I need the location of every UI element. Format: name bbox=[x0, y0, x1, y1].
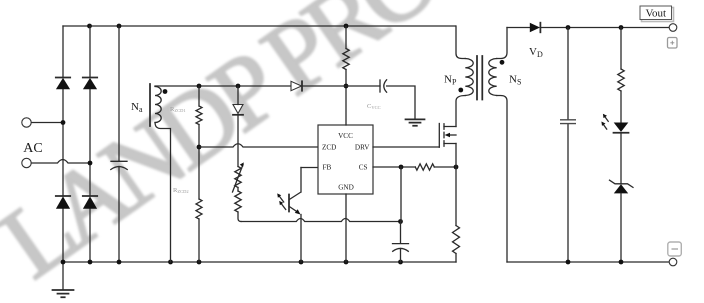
node y86 x346 bbox=[344, 84, 349, 89]
watermark bbox=[0, 0, 456, 300]
wire FB bbox=[301, 167, 318, 169]
Na phase dot bbox=[163, 89, 168, 94]
node rail x301 bbox=[299, 260, 304, 265]
svg-text:CVCC: CVCC bbox=[367, 103, 381, 110]
resistor Rzcd1 column bbox=[198, 86, 200, 106]
wire ZCD with hop bbox=[199, 144, 318, 147]
terminal Vout- bbox=[669, 258, 677, 266]
node dot top rail x346 bbox=[344, 24, 349, 29]
diode VD bbox=[530, 23, 541, 33]
node AC2 bbox=[88, 161, 93, 166]
aux winding Na core bbox=[149, 84, 151, 126]
node out x621 bbox=[619, 25, 624, 30]
wire bridge column 2 bbox=[89, 26, 91, 262]
diode (small, col x238) bbox=[233, 105, 243, 115]
node y86 x238 bbox=[236, 84, 241, 89]
node rail x170 bbox=[168, 260, 173, 265]
wire CS filter column bbox=[400, 167, 403, 243]
transformer Ns winding bbox=[489, 59, 497, 96]
bottom rail wire (primary) bbox=[63, 261, 456, 263]
node rail x119 bbox=[117, 260, 122, 265]
wire Cvcc to ground bbox=[387, 86, 415, 119]
wire to CS bus bbox=[238, 212, 241, 222]
capacitor C1 (bus filter) bbox=[111, 161, 127, 169]
resistor R LED bbox=[620, 28, 622, 70]
resistor below NTC bbox=[237, 188, 239, 192]
resistor Rcs (horizontal) bbox=[415, 164, 434, 170]
diode D2 bbox=[83, 78, 97, 90]
transistor Q1 MOSFET bbox=[439, 124, 456, 148]
ground (earth) bbox=[53, 262, 74, 297]
op IC U1 box bbox=[318, 125, 373, 194]
wire Ns top bbox=[497, 28, 507, 59]
variable resistor (NTC) bbox=[233, 162, 244, 192]
node rail x400 bbox=[398, 260, 403, 265]
resistor Rvcc (startup) bbox=[345, 26, 347, 49]
svg-text:NS: NS bbox=[509, 74, 521, 87]
wire Np bottom to drain bbox=[456, 96, 465, 127]
terminal AC1 bbox=[22, 118, 31, 127]
svg-text:LANDP PRO: LANDP PRO bbox=[0, 0, 456, 300]
capacitor Cout bbox=[560, 120, 576, 124]
svg-text:VCC: VCC bbox=[338, 132, 353, 140]
node rail x90 bbox=[88, 260, 93, 265]
diode Dvcc on y86 bbox=[291, 81, 302, 90]
label Vout box bbox=[640, 6, 674, 22]
wire GND pin bbox=[345, 194, 347, 262]
wire bridge column 1 bbox=[62, 26, 64, 262]
wire drain to Np bbox=[456, 26, 465, 59]
Np phase dot bbox=[458, 88, 463, 93]
node CS bus end bbox=[398, 219, 403, 224]
zener DZ bbox=[610, 180, 634, 193]
capacitor Cout column bbox=[567, 28, 569, 263]
node sec rail x621 bbox=[619, 260, 624, 265]
transformer core bbox=[477, 56, 482, 100]
svg-text:VD: VD bbox=[529, 46, 543, 59]
node rail x63 bbox=[61, 260, 66, 265]
wire Rcs to source bbox=[434, 166, 456, 168]
capacitor Cvcc bbox=[380, 80, 387, 92]
wire resistor to LED bbox=[620, 91, 622, 123]
wire CS pin bbox=[373, 166, 415, 168]
node CS x401 bbox=[399, 165, 404, 170]
node rail x346 bbox=[344, 260, 349, 265]
top rail wire bbox=[63, 25, 455, 27]
wire zener to rail bbox=[620, 193, 622, 262]
diode D1 bbox=[56, 78, 70, 90]
terminal Vout+ bbox=[669, 24, 677, 32]
terminal AC2 bbox=[22, 158, 31, 167]
wire y86 to Cvcc bbox=[302, 85, 380, 87]
svg-text:ZCD: ZCD bbox=[322, 144, 336, 152]
wire DRV bbox=[373, 146, 439, 148]
wire source to sense resistor bbox=[455, 144, 457, 226]
wire Ns bottom to rail bbox=[497, 96, 507, 263]
svg-text:GND: GND bbox=[338, 184, 354, 192]
wire Na bottom to ground bbox=[155, 123, 171, 263]
node ZCD tap bbox=[197, 145, 202, 150]
wire LED to zener bbox=[620, 133, 622, 184]
wire VCC pin column bbox=[345, 70, 347, 126]
node dot top rail x89 bbox=[87, 24, 92, 29]
optocoupler phototransistor bbox=[289, 168, 301, 263]
bottom rail wire (secondary) bbox=[507, 261, 669, 263]
opto light arrows bbox=[277, 193, 286, 209]
wire CS bus y222 with hops bbox=[241, 219, 401, 222]
svg-text:Vout: Vout bbox=[646, 8, 667, 20]
wire AC1 bbox=[32, 122, 64, 124]
transformer Np winding bbox=[465, 59, 473, 96]
diode D4 bbox=[83, 196, 97, 209]
aux winding Na coil bbox=[155, 87, 161, 123]
wire VD to Vout bbox=[540, 27, 669, 29]
wire output top bbox=[507, 27, 530, 29]
wire VCC top bus (y=86) bbox=[155, 85, 291, 87]
node source x456 bbox=[454, 165, 459, 170]
resistor Rzcd2 bbox=[196, 199, 202, 219]
plus terminal box bbox=[668, 38, 678, 49]
svg-text:FB: FB bbox=[323, 164, 332, 172]
svg-text:RZCD1: RZCD1 bbox=[170, 106, 186, 113]
svg-text:DRV: DRV bbox=[355, 144, 370, 152]
ground (signal) bbox=[406, 119, 425, 125]
wire bus capacitor column bbox=[118, 26, 120, 262]
minus terminal box bbox=[668, 242, 682, 256]
svg-text:NP: NP bbox=[444, 74, 457, 87]
node out x568 bbox=[566, 25, 571, 30]
LED arrows bbox=[601, 114, 608, 129]
svg-text:AC: AC bbox=[23, 141, 42, 156]
svg-text:CS: CS bbox=[359, 164, 368, 172]
diode D3 bbox=[56, 196, 70, 209]
node dot top rail x119 bbox=[117, 24, 122, 29]
capacitor Ccs bbox=[393, 244, 409, 252]
wire AC2 with hop bbox=[32, 160, 91, 164]
resistor Rs (sense) bbox=[453, 226, 460, 254]
LED D5 bbox=[614, 123, 629, 133]
node AC1 bbox=[61, 120, 66, 125]
node rail x199 bbox=[197, 260, 202, 265]
node sec rail x568 bbox=[566, 260, 571, 265]
svg-text:RZCD2: RZCD2 bbox=[173, 187, 189, 194]
wire diode column bbox=[237, 86, 239, 167]
Ns phase dot bbox=[500, 60, 505, 65]
node y86 x199 bbox=[197, 84, 202, 89]
